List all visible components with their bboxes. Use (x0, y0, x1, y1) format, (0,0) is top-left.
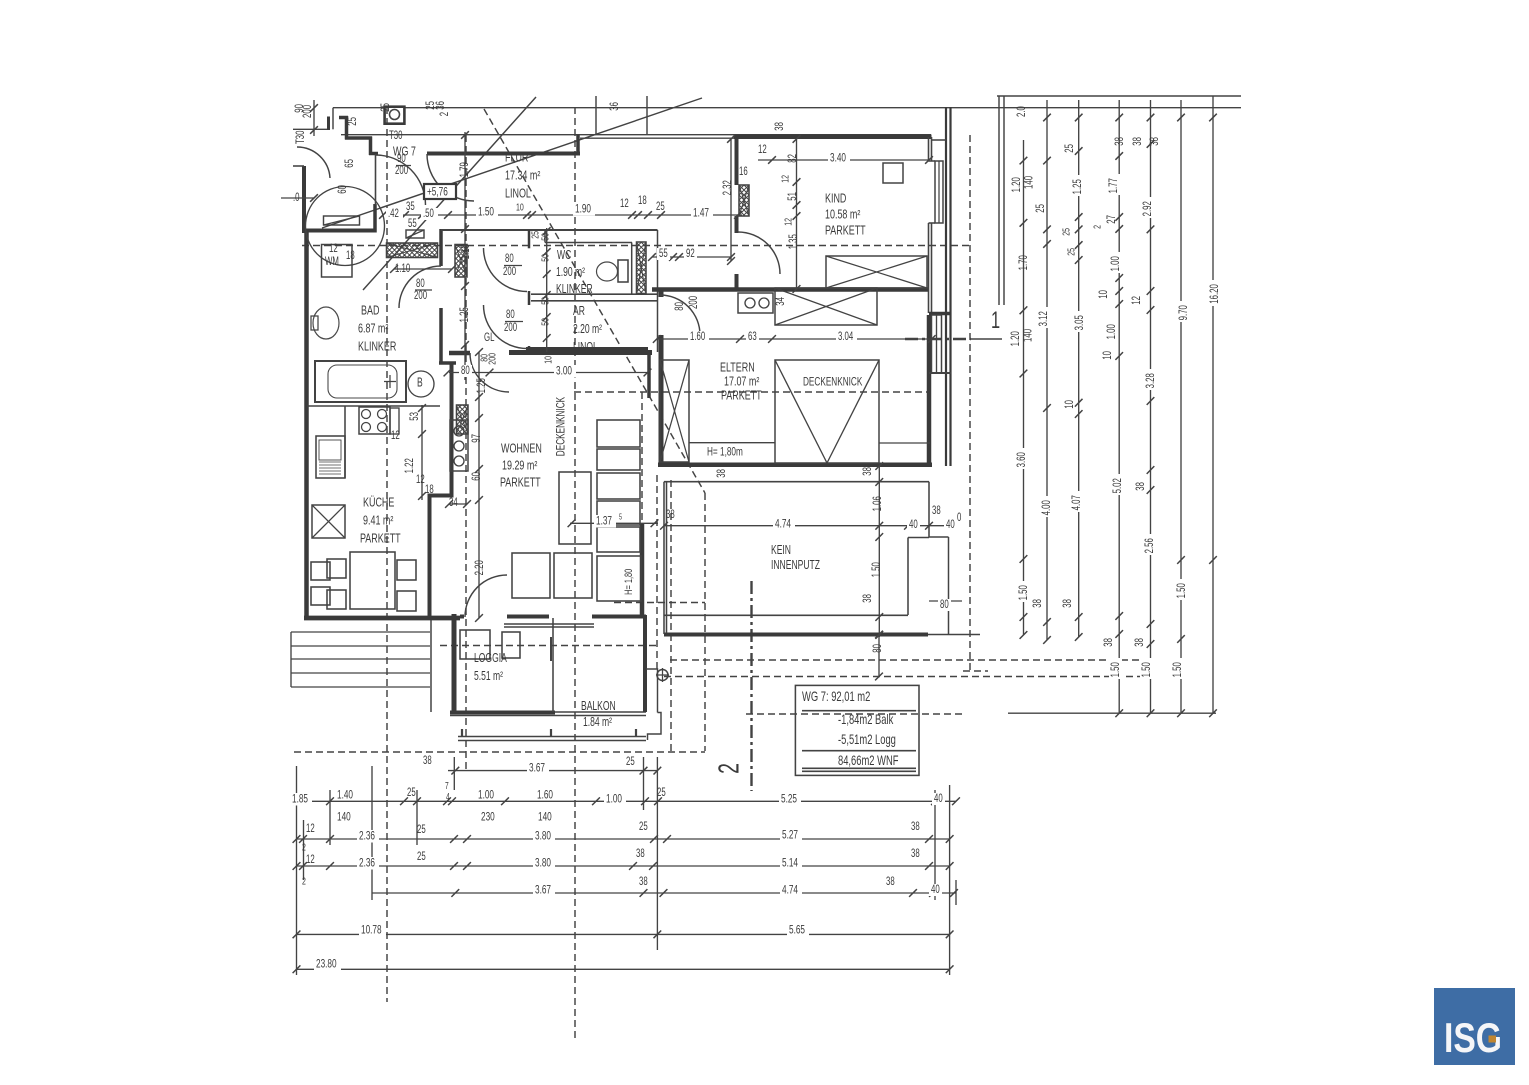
svg-text:3.28: 3.28 (1145, 373, 1158, 389)
svg-text:84,66m2 WNF: 84,66m2 WNF (838, 752, 898, 768)
svg-text:80: 80 (461, 365, 470, 378)
svg-text:40: 40 (946, 519, 955, 532)
svg-text:1.10: 1.10 (460, 244, 473, 260)
svg-text:50: 50 (539, 318, 551, 326)
svg-text:25: 25 (626, 756, 635, 769)
svg-text:92: 92 (686, 248, 695, 261)
svg-text:51: 51 (787, 192, 800, 201)
svg-text:38: 38 (1134, 638, 1147, 647)
svg-text:PARKETT: PARKETT (721, 389, 762, 403)
svg-text:0: 0 (957, 512, 962, 525)
svg-text:1.50: 1.50 (1172, 662, 1185, 678)
svg-text:1.84 m²: 1.84 m² (583, 715, 612, 729)
svg-text:10: 10 (1098, 290, 1111, 299)
svg-text:38: 38 (862, 467, 875, 476)
svg-text:WM: WM (325, 256, 339, 269)
svg-text:25: 25 (347, 117, 360, 126)
svg-text:38: 38 (1032, 599, 1045, 608)
svg-text:200: 200 (486, 353, 498, 365)
svg-text:200: 200 (504, 322, 517, 335)
svg-text:2.32: 2.32 (722, 180, 735, 195)
svg-text:80: 80 (872, 644, 885, 653)
svg-text:PARKETT: PARKETT (500, 476, 541, 490)
svg-text:2.36: 2.36 (359, 857, 375, 870)
svg-text:1.47: 1.47 (693, 207, 709, 220)
svg-text:9.70: 9.70 (1178, 305, 1191, 321)
svg-text:36: 36 (435, 101, 448, 110)
svg-text:80: 80 (505, 253, 514, 266)
svg-text:53: 53 (409, 412, 422, 421)
svg-text:10.58 m²: 10.58 m² (825, 208, 861, 222)
svg-text:12: 12 (416, 474, 425, 487)
svg-text:200: 200 (302, 105, 315, 118)
svg-text:3.80: 3.80 (535, 830, 551, 843)
svg-text:4.74: 4.74 (782, 884, 798, 897)
svg-text:1.20: 1.20 (1010, 331, 1023, 347)
svg-text:2: 2 (1091, 225, 1103, 229)
svg-text:2.20 m²: 2.20 m² (573, 322, 602, 336)
svg-text:1.90 m²: 1.90 m² (556, 265, 585, 279)
svg-text:12: 12 (1131, 296, 1144, 305)
svg-text:AR: AR (573, 304, 585, 318)
svg-text:PARKETT: PARKETT (360, 532, 401, 546)
svg-text:12: 12 (758, 144, 767, 157)
svg-text:16: 16 (739, 166, 748, 179)
svg-text:1.00: 1.00 (1106, 324, 1119, 340)
svg-text:2.36: 2.36 (359, 830, 375, 843)
svg-text:WOHNEN: WOHNEN (501, 442, 542, 456)
svg-text:38: 38 (1149, 137, 1162, 146)
svg-text:1.00: 1.00 (1110, 256, 1123, 272)
svg-text:3.40: 3.40 (830, 152, 846, 165)
svg-text:1.70: 1.70 (1018, 255, 1031, 271)
svg-text:2: 2 (714, 763, 746, 774)
svg-text:2.56: 2.56 (1144, 538, 1157, 554)
svg-text:2.0: 2.0 (1016, 106, 1029, 117)
svg-text:18: 18 (425, 484, 434, 497)
svg-text:LOGGIA: LOGGIA (474, 651, 507, 665)
svg-text:82: 82 (787, 154, 800, 163)
svg-text:1.40: 1.40 (337, 789, 353, 802)
svg-text:200: 200 (395, 165, 408, 178)
svg-text:-1,84m2 Balk: -1,84m2 Balk (838, 711, 893, 727)
svg-text:7: 7 (445, 780, 449, 792)
svg-text:23.80: 23.80 (316, 958, 337, 971)
svg-text:10: 10 (516, 201, 524, 213)
svg-text:GL: GL (484, 332, 495, 345)
svg-text:18: 18 (638, 195, 647, 208)
svg-text:25: 25 (417, 851, 426, 864)
svg-text:38: 38 (774, 122, 787, 131)
svg-text:10: 10 (1102, 351, 1115, 360)
svg-text:1.50: 1.50 (871, 562, 884, 578)
svg-text:KEIN: KEIN (771, 543, 791, 557)
svg-text:65: 65 (344, 159, 357, 168)
svg-text:1.50: 1.50 (1018, 585, 1031, 601)
svg-text:3.05: 3.05 (1074, 315, 1087, 331)
svg-text:2: 2 (302, 875, 306, 887)
svg-text:50: 50 (539, 233, 551, 241)
svg-text:-5,51m2 Logg: -5,51m2 Logg (838, 731, 896, 747)
svg-text:LINOL: LINOL (505, 187, 531, 201)
svg-text:38: 38 (666, 509, 675, 522)
svg-text:63: 63 (748, 331, 757, 344)
svg-text:16.20: 16.20 (1209, 284, 1222, 304)
svg-text:2.20: 2.20 (474, 560, 487, 576)
svg-text:1.50: 1.50 (1110, 662, 1123, 678)
svg-text:.0: .0 (293, 192, 300, 205)
svg-text:25: 25 (639, 821, 648, 834)
svg-text:ELTERN: ELTERN (720, 361, 755, 375)
svg-text:12: 12 (782, 218, 794, 226)
svg-text:40: 40 (909, 519, 918, 532)
svg-text:KLINKER: KLINKER (556, 282, 593, 296)
svg-text:1.25: 1.25 (1072, 179, 1085, 195)
svg-text:40: 40 (931, 884, 940, 897)
svg-text:34: 34 (449, 497, 458, 510)
svg-text:3.12: 3.12 (1038, 311, 1051, 326)
svg-text:140: 140 (337, 811, 351, 824)
svg-text:1.79: 1.79 (459, 162, 472, 177)
svg-text:200: 200 (688, 296, 701, 309)
svg-text:1.85: 1.85 (292, 793, 308, 806)
svg-text:6.87 m²: 6.87 m² (358, 322, 389, 336)
svg-text:9.41 m²: 9.41 m² (363, 514, 394, 528)
svg-text:1.00: 1.00 (478, 789, 494, 802)
svg-text:WG 7: 92,01 m2: WG 7: 92,01 m2 (802, 688, 870, 704)
svg-text:80: 80 (940, 599, 949, 612)
svg-text:38: 38 (1103, 638, 1116, 647)
svg-text:KIND: KIND (825, 192, 846, 206)
svg-text:38: 38 (1132, 137, 1145, 146)
svg-text:2.92: 2.92 (1142, 201, 1155, 216)
svg-text:3.04: 3.04 (838, 331, 854, 344)
svg-text:1.25: 1.25 (476, 378, 489, 394)
svg-text:1.90: 1.90 (575, 203, 591, 216)
svg-text:97: 97 (471, 434, 484, 443)
svg-text:1: 1 (991, 307, 1000, 334)
svg-text:5.65: 5.65 (789, 924, 805, 937)
svg-text:50: 50 (539, 254, 551, 262)
svg-text:FLUR: FLUR (505, 151, 528, 165)
svg-text:230: 230 (481, 811, 495, 824)
svg-text:25: 25 (529, 231, 541, 239)
svg-text:12: 12 (391, 430, 400, 443)
svg-text:25: 25 (1064, 144, 1077, 153)
svg-text:25: 25 (1065, 248, 1077, 256)
svg-text:10: 10 (1064, 400, 1077, 409)
svg-text:12: 12 (306, 854, 315, 867)
svg-text:1.50: 1.50 (1141, 662, 1154, 678)
svg-text:T30: T30 (295, 130, 308, 144)
svg-text:38: 38 (886, 876, 895, 889)
svg-text:25: 25 (1060, 228, 1072, 236)
svg-text:WC: WC (557, 248, 571, 262)
svg-text:36: 36 (609, 102, 622, 111)
svg-text:1.50: 1.50 (478, 206, 494, 219)
svg-text:1.60: 1.60 (690, 331, 706, 344)
svg-text:T30: T30 (389, 130, 403, 143)
svg-text:40: 40 (934, 793, 943, 806)
svg-text:25: 25 (1035, 204, 1048, 213)
svg-text:5.27: 5.27 (782, 829, 798, 842)
svg-text:10.78: 10.78 (361, 924, 382, 937)
svg-text:12: 12 (779, 175, 791, 183)
svg-text:38: 38 (716, 469, 729, 478)
svg-text:140: 140 (1022, 329, 1035, 342)
svg-text:1.06: 1.06 (872, 496, 885, 512)
svg-text:DECKENKNICK: DECKENKNICK (555, 397, 568, 456)
svg-text:38: 38 (911, 848, 920, 861)
svg-text:2: 2 (439, 112, 452, 116)
svg-text:KÜCHE: KÜCHE (363, 496, 395, 510)
svg-text:38: 38 (911, 821, 920, 834)
svg-text:200: 200 (414, 290, 427, 303)
svg-text:12: 12 (620, 198, 629, 211)
svg-text:55: 55 (408, 218, 417, 231)
svg-text:3.67: 3.67 (535, 884, 551, 897)
svg-text:1.22: 1.22 (404, 458, 417, 473)
svg-text:80: 80 (674, 302, 687, 311)
svg-text:38: 38 (1114, 137, 1127, 146)
svg-text:140: 140 (538, 811, 552, 824)
svg-text:5.02: 5.02 (1112, 478, 1125, 493)
svg-text:17.34 m²: 17.34 m² (505, 169, 541, 183)
svg-text:INNENPUTZ: INNENPUTZ (771, 558, 820, 572)
svg-text:38: 38 (1135, 482, 1148, 491)
svg-text:60: 60 (471, 472, 484, 481)
svg-text:KLINKER: KLINKER (358, 340, 396, 354)
svg-text:3.00: 3.00 (556, 365, 572, 378)
svg-text:H= 1,80m: H= 1,80m (707, 446, 743, 459)
svg-text:1.37: 1.37 (596, 515, 612, 528)
svg-text:1.25: 1.25 (459, 307, 472, 323)
svg-text:12: 12 (329, 243, 338, 256)
svg-text:25: 25 (407, 787, 416, 800)
svg-text:5.14: 5.14 (782, 857, 798, 870)
svg-text:4.00: 4.00 (1041, 500, 1054, 516)
svg-text:19.29 m²: 19.29 m² (502, 459, 538, 473)
svg-text:1.50: 1.50 (1176, 583, 1189, 599)
svg-text:25: 25 (380, 103, 393, 112)
svg-text:1.00: 1.00 (606, 793, 622, 806)
svg-text:25: 25 (417, 824, 426, 837)
svg-text:200: 200 (503, 266, 516, 279)
svg-text:18: 18 (346, 250, 355, 263)
svg-text:38: 38 (423, 755, 432, 768)
svg-text:5: 5 (619, 514, 622, 522)
svg-text:34: 34 (775, 297, 788, 306)
svg-text:1.20: 1.20 (1011, 177, 1024, 193)
svg-text:140: 140 (1023, 176, 1036, 189)
svg-text:17.07 m²: 17.07 m² (724, 375, 760, 389)
svg-text:50: 50 (539, 297, 551, 305)
svg-text:1.10: 1.10 (395, 263, 411, 276)
svg-text:1.77: 1.77 (1108, 178, 1121, 193)
svg-text:38: 38 (862, 594, 875, 603)
svg-text:4.07: 4.07 (1071, 495, 1084, 510)
svg-text:.42: .42 (388, 208, 399, 221)
svg-text:60: 60 (337, 185, 350, 194)
svg-text:25: 25 (656, 201, 665, 214)
svg-text:38: 38 (932, 505, 941, 518)
svg-text:80: 80 (506, 309, 515, 322)
svg-text:+5,76: +5,76 (427, 186, 448, 199)
svg-text:.50: .50 (423, 208, 434, 221)
svg-text:3.60: 3.60 (1016, 452, 1029, 468)
svg-text:38: 38 (636, 848, 645, 861)
svg-text:90: 90 (397, 153, 406, 166)
svg-text:27: 27 (1106, 215, 1119, 224)
svg-text:BALKON: BALKON (581, 699, 616, 713)
svg-text:BAD: BAD (361, 304, 379, 318)
svg-text:B: B (417, 376, 423, 390)
svg-text:1.35: 1.35 (788, 234, 801, 250)
svg-text:4.74: 4.74 (775, 518, 791, 531)
svg-text:38: 38 (639, 876, 648, 889)
svg-text:12: 12 (306, 823, 315, 836)
svg-text:4: 4 (446, 791, 450, 803)
svg-text:1.60: 1.60 (537, 789, 553, 802)
svg-text:PARKETT: PARKETT (825, 224, 866, 238)
svg-text:LINOL: LINOL (573, 340, 598, 354)
svg-text:55: 55 (659, 248, 668, 261)
svg-text:3.67: 3.67 (529, 762, 545, 775)
svg-text:80: 80 (416, 278, 425, 291)
svg-text:DECKENKNICK: DECKENKNICK (803, 376, 862, 389)
svg-text:3.80: 3.80 (535, 857, 551, 870)
svg-text:5.51 m²: 5.51 m² (474, 669, 503, 683)
svg-text:35: 35 (406, 201, 415, 214)
svg-text:10: 10 (542, 356, 554, 364)
svg-text:38: 38 (1062, 599, 1075, 608)
svg-text:2: 2 (302, 841, 306, 853)
svg-text:5.25: 5.25 (781, 793, 797, 806)
svg-text:H= 1,80: H= 1,80 (622, 569, 634, 595)
svg-text:25: 25 (657, 787, 666, 800)
